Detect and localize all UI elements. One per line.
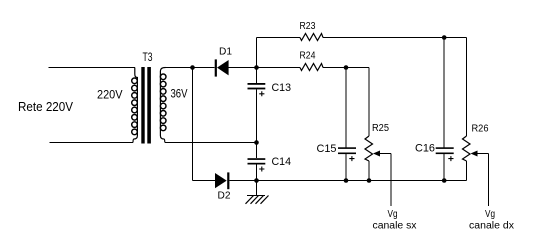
svg-text:R25: R25 — [372, 123, 389, 134]
wire vertical left branch to D2 — [192, 68, 194, 181]
svg-text:C14: C14 — [272, 156, 292, 168]
svg-text:D2: D2 — [218, 191, 231, 202]
svg-text:C16: C16 — [415, 143, 435, 155]
transformer T3 — [97, 50, 188, 144]
svg-text:T3: T3 — [143, 50, 153, 64]
node R23 to C16 junction — [442, 35, 447, 40]
svg-text:Vg: Vg — [388, 209, 398, 220]
capacitor C13 — [248, 68, 292, 143]
core bar left — [141, 67, 144, 144]
wire R23 corner down to R26 — [466, 38, 468, 137]
node main positive junction — [254, 65, 259, 70]
wire mains top — [49, 67, 135, 69]
node center tap junction — [254, 140, 259, 145]
wire D1 cathode to node — [229, 67, 257, 69]
svg-text:R26: R26 — [472, 124, 489, 135]
svg-text:Vg: Vg — [485, 209, 495, 220]
resistor R24 — [257, 51, 370, 71]
wire secondary bottom to center node — [165, 142, 257, 144]
ground — [246, 181, 269, 204]
node C16 bottom — [442, 178, 447, 183]
svg-text:R23: R23 — [300, 21, 316, 32]
capacitor C14 — [248, 143, 292, 181]
label Vg canale sx — [373, 209, 417, 232]
node R24 to C15 junction — [344, 65, 349, 70]
diode D2 — [193, 172, 257, 201]
core bar right — [147, 67, 151, 144]
wire bottom bus — [257, 180, 467, 182]
secondary winding 36V — [160, 68, 165, 143]
wire R23 node down to C16 — [443, 38, 445, 148]
resistor R25 (trimmer) — [365, 123, 391, 206]
svg-text:220V: 220V — [97, 88, 123, 102]
resistor R23 — [257, 21, 467, 41]
wiper arrow R26 — [471, 151, 478, 157]
node C15 bottom — [344, 178, 349, 183]
wire secondary top to D1 — [165, 67, 215, 69]
label Vg canale dx — [469, 209, 514, 232]
svg-text:36V: 36V — [171, 87, 188, 101]
diode D1 — [215, 47, 233, 77]
wire R24 node down to C15 — [345, 68, 347, 148]
plus sign C16 — [448, 156, 453, 161]
plus sign C13 — [259, 91, 264, 96]
plus sign C15 — [349, 156, 354, 161]
capacitor C15 — [317, 143, 357, 181]
svg-text:C13: C13 — [272, 82, 292, 94]
svg-text:R24: R24 — [300, 51, 316, 62]
capacitor C16 — [415, 143, 454, 181]
svg-text:canale sx: canale sx — [373, 221, 417, 232]
wire R24 corner down to R25 — [368, 68, 370, 137]
node junction secondary top — [190, 65, 195, 70]
resistor R26 (trimmer) — [463, 124, 489, 207]
wire node up to R23 line — [256, 38, 258, 68]
wiper arrow R25 — [373, 151, 380, 157]
svg-text:C15: C15 — [317, 143, 337, 155]
node R25 bottom — [367, 178, 372, 183]
node ground junction — [254, 178, 259, 183]
svg-text:Rete 220V: Rete 220V — [18, 99, 73, 114]
wire mains bottom — [50, 142, 134, 144]
svg-text:D1: D1 — [219, 47, 232, 58]
svg-text:canale dx: canale dx — [469, 221, 514, 232]
plus sign C14 — [259, 167, 264, 172]
primary winding 220V — [133, 68, 137, 143]
